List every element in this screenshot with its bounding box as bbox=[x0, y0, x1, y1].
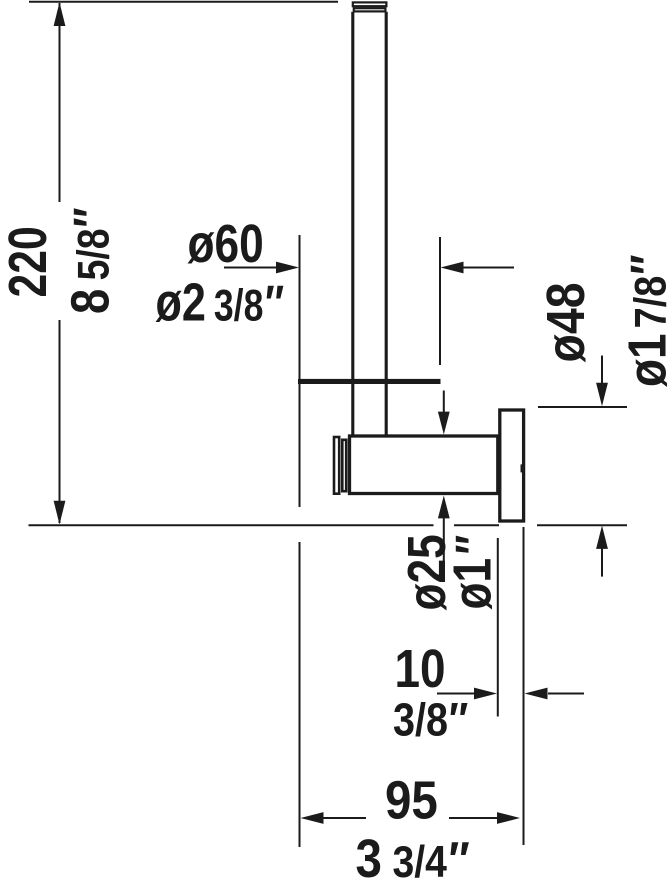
dimension line 95 left bbox=[310, 817, 366, 819]
arrow right 10 bbox=[474, 688, 497, 700]
cylinder body bbox=[350, 436, 498, 494]
svg-text:ø60: ø60 bbox=[188, 214, 264, 274]
extension line diameter60 right bbox=[439, 237, 441, 365]
cylinder groove ring bbox=[342, 440, 346, 491]
arrow right diameter60 bbox=[276, 262, 299, 274]
arrow down diameter25 top bbox=[438, 412, 450, 435]
svg-text:95: 95 bbox=[385, 770, 438, 831]
svg-text:3/8″: 3/8″ bbox=[393, 694, 468, 747]
cylinder end cap bbox=[334, 437, 339, 494]
extension line: top of 220 dimension bbox=[29, 1, 338, 3]
arrow up 220 top bbox=[54, 2, 66, 26]
wall line bbox=[29, 524, 628, 526]
svg-text:ø17/8″: ø17/8″ bbox=[617, 255, 671, 387]
disc diameter60 edge-on bbox=[298, 379, 441, 384]
svg-text:85/8″: 85/8″ bbox=[60, 207, 121, 314]
dimension line diameter60 left part bbox=[224, 267, 288, 269]
arrow down 220 bottom bbox=[54, 501, 66, 525]
dimension line diameter60 right part bbox=[452, 267, 514, 269]
extension line right of plate bbox=[523, 527, 525, 845]
extension line diameter60 left bbox=[299, 235, 301, 847]
post top cap bbox=[353, 2, 387, 6]
arrow right 95 bbox=[497, 812, 520, 824]
wall plate center tick bbox=[521, 464, 526, 472]
dimension line 220 vertical bbox=[59, 3, 61, 523]
dimension shaft diameter25 bottom bbox=[443, 510, 445, 568]
dimension line 10 left bbox=[437, 693, 480, 695]
dimension shaft diameter25 top bbox=[443, 391, 445, 419]
arrow left 10 bbox=[525, 688, 548, 700]
post right edge bbox=[385, 12, 388, 436]
svg-text:10: 10 bbox=[395, 639, 446, 699]
extension line 10 left bbox=[497, 538, 499, 717]
wall plate bbox=[500, 410, 524, 521]
dimension shaft diameter48 top bbox=[601, 356, 603, 389]
extension line diameter48 top bbox=[538, 406, 627, 408]
dimension line 10 right bbox=[548, 693, 584, 695]
post left edge bbox=[351, 12, 354, 436]
dimension line 95 right bbox=[449, 817, 500, 819]
arrow down diameter48 top bbox=[596, 383, 608, 406]
svg-text:ø1″: ø1″ bbox=[442, 535, 502, 610]
post top cap ring bbox=[354, 8, 386, 11]
svg-text:220: 220 bbox=[0, 226, 58, 297]
svg-text:ø48: ø48 bbox=[535, 282, 596, 362]
arrow left diameter60 bbox=[441, 262, 464, 274]
arrow up diameter48 bottom bbox=[596, 526, 608, 549]
svg-text:ø23/8″: ø23/8″ bbox=[156, 273, 285, 333]
svg-text:33/4″: 33/4″ bbox=[356, 828, 470, 884]
arrow up diameter25 bottom bbox=[438, 496, 450, 519]
arrow left 95 bbox=[301, 812, 324, 824]
dimension shaft diameter48 bottom bbox=[601, 545, 603, 577]
